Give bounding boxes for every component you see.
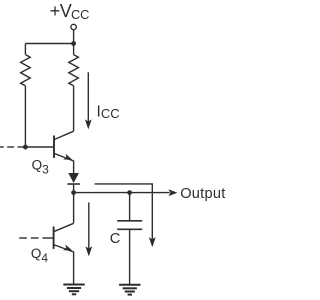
- svg-text:C: C: [110, 231, 121, 247]
- svg-text:Q4: Q4: [31, 246, 49, 265]
- svg-text:Q3: Q3: [32, 157, 50, 176]
- svg-text:+VCC: +VCC: [50, 1, 89, 22]
- svg-text:ICC: ICC: [97, 104, 120, 122]
- svg-text:Output: Output: [180, 186, 225, 202]
